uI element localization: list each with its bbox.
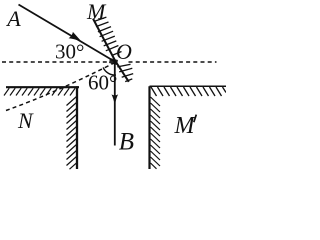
mirror M line <box>93 19 129 82</box>
wire: reflected ray O to B <box>114 62 116 146</box>
svg-text:A: A <box>5 6 21 31</box>
wire: incident ray A to O <box>19 5 116 63</box>
left wall horizontal line <box>6 86 79 88</box>
dashed horizontal line (right of O) <box>129 61 217 63</box>
svg-text:60°: 60° <box>88 71 117 95</box>
dashed normal line N to O <box>6 63 115 111</box>
left wall vertical hatching <box>67 97 77 170</box>
arrowhead on reflected ray <box>112 94 119 105</box>
dashed horizontal line (left of O) <box>2 61 108 63</box>
svg-text:30°: 30° <box>55 40 84 64</box>
60 degree angle arc at O <box>103 67 116 75</box>
right wall top line <box>150 85 227 87</box>
mirror M hatching <box>94 17 133 82</box>
right wall top hatching <box>151 87 226 96</box>
left wall horizontal hatching <box>4 88 75 95</box>
node O junction blob <box>109 58 118 65</box>
arrowhead on incident ray <box>69 32 82 42</box>
svg-text:B: B <box>119 129 134 156</box>
left wall vertical line <box>76 86 78 169</box>
right wall vertical hatching <box>151 97 161 169</box>
svg-text:O: O <box>116 39 132 64</box>
svg-text:N: N <box>17 108 34 133</box>
svg-text:M: M <box>86 0 107 24</box>
svg-text:M: M <box>174 113 197 139</box>
right wall vertical line <box>148 86 150 169</box>
